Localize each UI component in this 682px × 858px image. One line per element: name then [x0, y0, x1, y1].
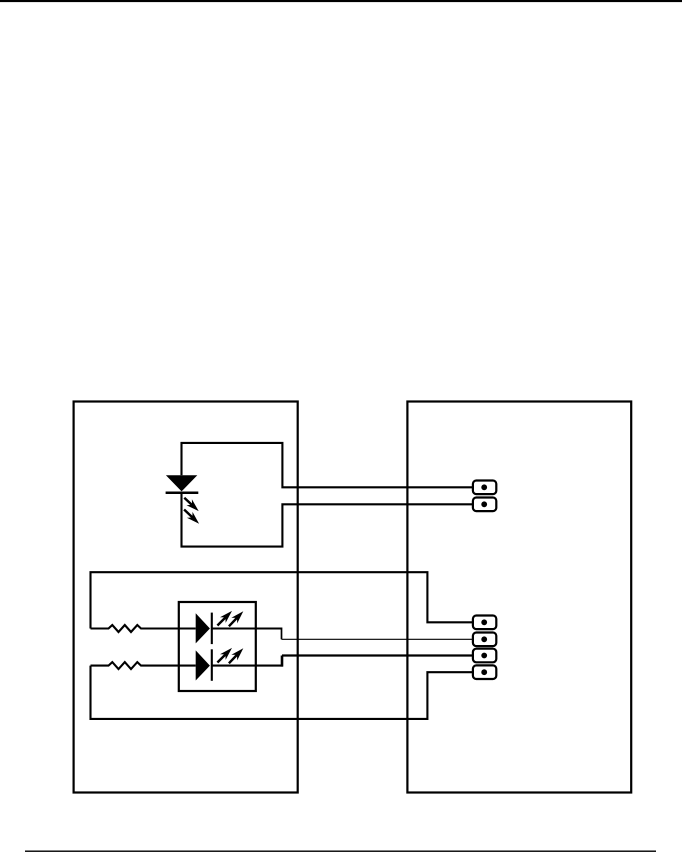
LED D2 light arrow 2 [229, 611, 243, 626]
LED D3 light arrow 2 [229, 648, 243, 663]
left unit enclosure [74, 402, 298, 793]
connector pin T1 [473, 481, 496, 495]
connector pin B1 [473, 616, 496, 630]
LED D3 light arrow 1 [217, 648, 232, 663]
resistor R1 [91, 625, 179, 632]
wire: loop A top (resistor R1 to connector B1) [91, 572, 473, 628]
wire: D1 anode loop (top) [182, 443, 473, 487]
connector pin B3 [473, 649, 496, 663]
wire: D1 cathode loop (bottom) [182, 493, 473, 547]
photodiode D1 [166, 475, 199, 493]
right unit enclosure [407, 402, 631, 793]
resistor R2 [91, 662, 179, 669]
photodiode D1 light arrow 2 [184, 510, 199, 524]
LED D2 [179, 613, 212, 645]
wire: LED D2 cathode to connector B2 [212, 628, 473, 640]
wire: loop B bottom (resistor R2 to connector B4) [91, 666, 473, 719]
wire: LED D3 cathode to connector B3 [212, 656, 473, 667]
connector pin T2 [473, 498, 496, 512]
LED D2 light arrow 1 [217, 611, 232, 626]
photodiode D1 light arrow 1 [184, 498, 198, 511]
optocoupler U1 package outline [179, 602, 256, 691]
connector pin B2 [473, 633, 496, 647]
connector pin B4 [473, 665, 496, 679]
LED D3 [179, 649, 212, 681]
